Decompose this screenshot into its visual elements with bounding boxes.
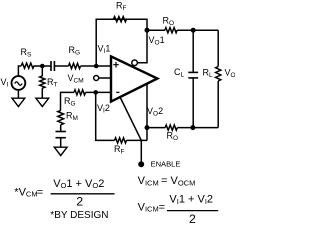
resistor RL: [217, 30, 219, 66]
wire VO1 to RO: [147, 29, 165, 31]
minus input mark: [116, 91, 119, 93]
ground (RT): [36, 98, 49, 106]
plus input mark: [113, 62, 119, 68]
svg-text:*BY DESIGN: *BY DESIGN: [50, 210, 108, 221]
resistor RO (bottom): [165, 125, 177, 130]
wire VI to ground: [17, 90, 19, 98]
svg-text:ENABLE: ENABLE: [151, 160, 181, 169]
svg-text:2: 2: [189, 212, 196, 224]
node dot input/RT: [40, 64, 45, 69]
wire RM to cap: [60, 125, 62, 132]
wire Vi2 to RF bottom: [96, 92, 115, 140]
wire RF to output node: [127, 139, 148, 141]
capacitor (RM branch): [56, 131, 66, 133]
node dot ENABLE: [138, 161, 144, 167]
svg-text:=: =: [159, 201, 165, 213]
svg-text:VI1 + VI2: VI1 + VI2: [169, 194, 213, 206]
wire cap to RG: [54, 65, 68, 67]
resistor RF (top): [114, 17, 127, 22]
resistor RS: [21, 63, 34, 68]
svg-text:2: 2: [76, 195, 83, 209]
node dot Vi2: [93, 90, 98, 95]
wire RT to ground: [41, 88, 43, 98]
wire opamp to VO2: [146, 84, 148, 140]
wire RS to cap: [34, 65, 51, 67]
resistor RT: [40, 76, 45, 88]
resistor RM: [58, 110, 64, 124]
svg-text:=: =: [37, 186, 43, 198]
resistor RF (bottom): [115, 138, 127, 143]
resistor RG (bottom): [74, 90, 86, 95]
wire RG to +input: [81, 65, 111, 67]
wire RO to load bottom: [177, 127, 218, 129]
node dot bottom right: [190, 125, 195, 130]
node dot VO1: [145, 28, 150, 33]
resistor RG (top): [69, 63, 81, 68]
source VI: [12, 76, 26, 90]
node dot Vi1: [94, 64, 99, 69]
wire ENABLE: [120, 97, 141, 162]
wire input chain: [18, 66, 21, 76]
node dot top right: [191, 28, 196, 33]
ground (RM): [54, 147, 67, 155]
wire bubble to VO1: [137, 30, 147, 63]
wire RG to -input: [86, 91, 111, 93]
wire top feedback loop: [96, 19, 147, 66]
op-amp U1: [111, 56, 157, 101]
wire RT branch: [41, 66, 43, 76]
wire VO2 to RO bottom: [147, 127, 165, 129]
wire -input: [61, 92, 75, 110]
node VCM circle: [94, 76, 99, 81]
capacitor input coupling: [50, 61, 52, 71]
wire VCM to opamp: [99, 77, 111, 79]
capacitor CL: [192, 30, 194, 72]
output bubble: [132, 60, 138, 66]
wire RO to load: [177, 29, 218, 31]
ground (VI): [12, 98, 25, 106]
resistor RO (top): [165, 28, 177, 33]
node dot VO2: [145, 125, 150, 130]
